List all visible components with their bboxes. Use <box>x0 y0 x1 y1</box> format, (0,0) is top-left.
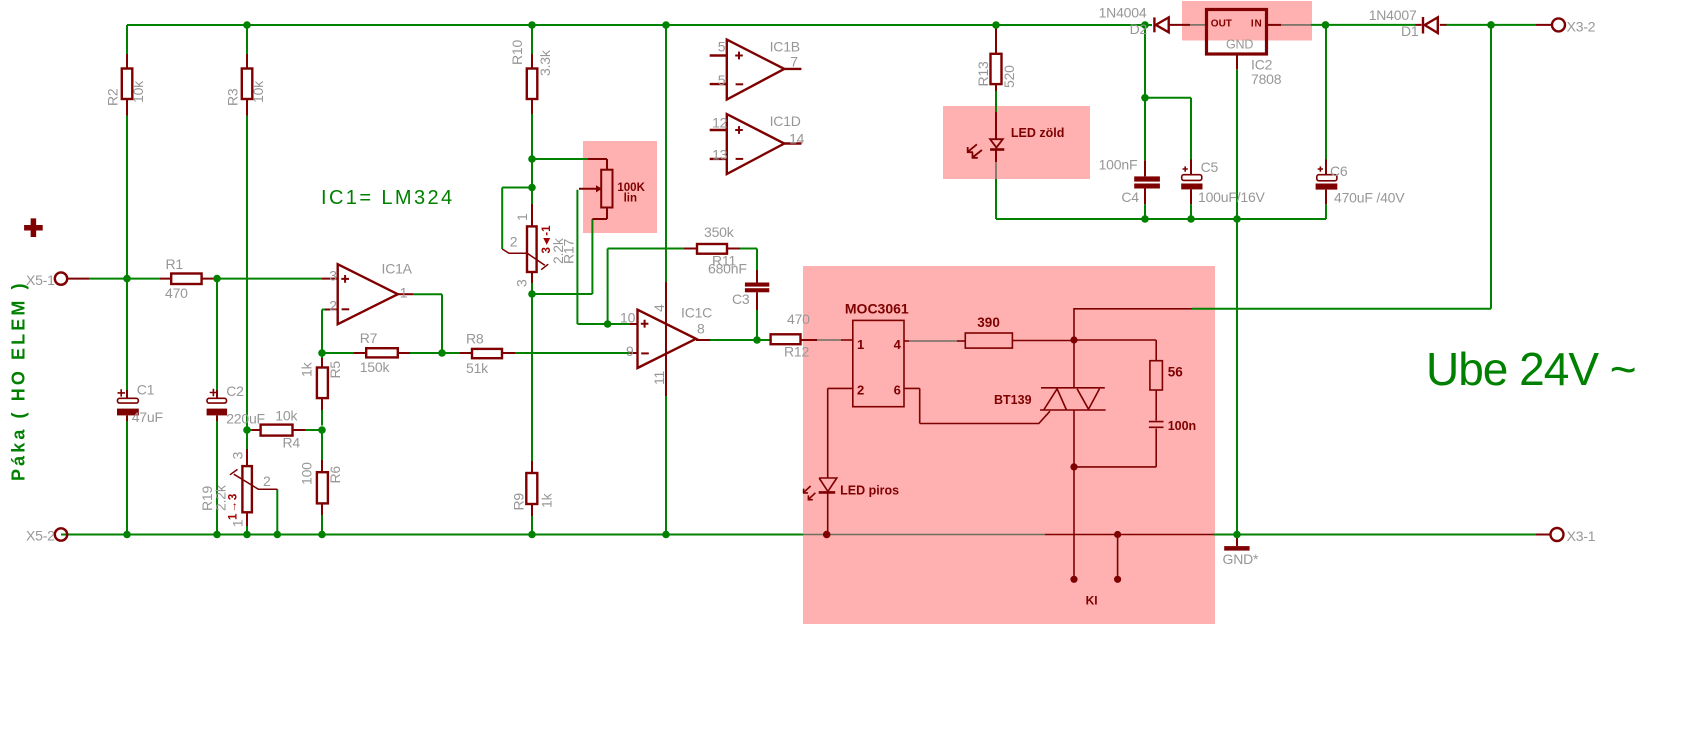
svg-text:R8: R8 <box>466 331 484 347</box>
svg-text:5: 5 <box>718 72 726 88</box>
svg-text:BT139: BT139 <box>994 393 1032 407</box>
svg-text:13: 13 <box>712 146 728 162</box>
svg-text:GND*: GND* <box>1223 551 1260 567</box>
svg-text:LED piros: LED piros <box>840 484 899 498</box>
svg-text:MOC3061: MOC3061 <box>845 301 909 317</box>
svg-text:X5-2: X5-2 <box>26 528 55 544</box>
svg-text:3.3k: 3.3k <box>537 49 553 76</box>
svg-text:C5: C5 <box>1201 159 1219 175</box>
svg-text:C2: C2 <box>226 383 244 399</box>
svg-text:7: 7 <box>790 54 798 70</box>
svg-text:IN: IN <box>1251 19 1263 30</box>
svg-text:12: 12 <box>712 115 728 131</box>
svg-text:IC1B: IC1B <box>770 39 800 55</box>
svg-text:11: 11 <box>651 370 667 385</box>
svg-text:D2: D2 <box>1130 21 1148 37</box>
svg-text:2: 2 <box>857 383 864 398</box>
svg-text:150k: 150k <box>360 359 391 375</box>
svg-text:IC1A: IC1A <box>382 261 413 277</box>
svg-text:100nF: 100nF <box>1099 157 1138 173</box>
svg-text:4: 4 <box>894 337 902 352</box>
svg-text:R12: R12 <box>784 344 809 360</box>
svg-text:2: 2 <box>510 234 518 250</box>
svg-text:56: 56 <box>1168 365 1184 380</box>
svg-text:3: 3 <box>514 279 530 287</box>
svg-text:470uF /40V: 470uF /40V <box>1334 190 1405 206</box>
svg-text:470: 470 <box>787 311 810 327</box>
svg-text:1N4004: 1N4004 <box>1099 5 1147 21</box>
svg-text:X3-1: X3-1 <box>1567 528 1596 544</box>
svg-text:520: 520 <box>1001 65 1017 88</box>
svg-text:D1: D1 <box>1401 23 1419 39</box>
svg-text:X3-2: X3-2 <box>1567 19 1596 35</box>
svg-text:2.2k: 2.2k <box>213 484 229 511</box>
svg-text:IC1C: IC1C <box>681 305 712 321</box>
svg-text:7808: 7808 <box>1251 71 1282 87</box>
svg-text:14: 14 <box>789 131 805 147</box>
svg-text:Ube 24V ~: Ube 24V ~ <box>1426 343 1636 395</box>
svg-text:8: 8 <box>697 321 705 337</box>
svg-text:OUT: OUT <box>1211 19 1232 30</box>
svg-text:100uF/16V: 100uF/16V <box>1198 189 1266 205</box>
svg-text:10k: 10k <box>250 80 266 103</box>
svg-text:100n: 100n <box>1168 419 1197 433</box>
svg-text:IC1= LM324: IC1= LM324 <box>321 187 455 209</box>
svg-text:C1: C1 <box>137 382 155 398</box>
svg-text:47uF: 47uF <box>132 409 163 425</box>
svg-text:680nF: 680nF <box>708 261 747 277</box>
svg-text:LED zöld: LED zöld <box>1011 126 1064 140</box>
svg-text:1N4007: 1N4007 <box>1369 7 1417 23</box>
svg-text:3◄-1: 3◄-1 <box>541 225 553 254</box>
svg-text:2: 2 <box>329 298 337 314</box>
svg-text:3: 3 <box>329 268 337 284</box>
svg-text:R7: R7 <box>360 330 378 346</box>
svg-text:R9: R9 <box>510 493 526 511</box>
svg-text:5: 5 <box>718 38 726 54</box>
svg-text:51k: 51k <box>466 360 489 376</box>
svg-text:390: 390 <box>977 315 1000 330</box>
svg-text:C3: C3 <box>732 291 750 307</box>
svg-text:1→3: 1→3 <box>228 493 240 520</box>
svg-text:R3: R3 <box>225 88 241 106</box>
svg-text:R13: R13 <box>975 61 991 86</box>
svg-text:R6: R6 <box>327 466 343 484</box>
svg-text:lin: lin <box>624 193 637 205</box>
svg-text:X5-1: X5-1 <box>26 272 55 288</box>
svg-text:2: 2 <box>263 473 271 489</box>
svg-text:1k: 1k <box>538 492 554 508</box>
svg-text:1: 1 <box>857 337 864 352</box>
svg-text:R4: R4 <box>283 435 301 451</box>
svg-text:R1: R1 <box>166 256 184 272</box>
svg-text:100: 100 <box>299 462 315 485</box>
svg-text:470: 470 <box>165 285 188 301</box>
svg-text:C4: C4 <box>1121 189 1139 205</box>
svg-text:3: 3 <box>230 451 246 459</box>
svg-text:6: 6 <box>894 383 901 398</box>
svg-text:R5: R5 <box>327 361 343 379</box>
svg-text:C6: C6 <box>1330 163 1348 179</box>
svg-text:R2: R2 <box>105 88 121 106</box>
svg-text:1: 1 <box>514 213 530 221</box>
svg-text:9: 9 <box>626 343 634 359</box>
svg-text:220uF: 220uF <box>226 411 265 427</box>
svg-text:10: 10 <box>620 310 636 326</box>
svg-text:Páka ( HO ELEM ): Páka ( HO ELEM ) <box>9 280 29 481</box>
svg-text:1k: 1k <box>299 361 315 377</box>
svg-text:350k: 350k <box>704 224 735 240</box>
svg-text:KI: KI <box>1086 594 1098 608</box>
svg-text:GND: GND <box>1226 38 1253 52</box>
svg-text:IC1D: IC1D <box>770 113 801 129</box>
svg-text:R10: R10 <box>509 40 525 65</box>
svg-text:4: 4 <box>651 304 667 312</box>
svg-text:1: 1 <box>400 285 408 301</box>
svg-text:10k: 10k <box>130 80 146 103</box>
svg-text:10k: 10k <box>275 408 298 424</box>
